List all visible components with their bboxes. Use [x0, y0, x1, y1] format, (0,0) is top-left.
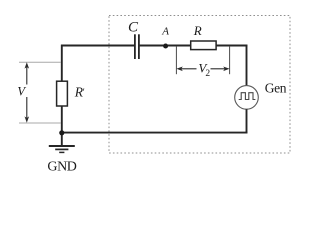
resistor R body: [191, 41, 216, 50]
node A junction dot: [163, 44, 168, 49]
wire: top horizontal (left segment to capacitor): [61, 45, 134, 47]
V arrowhead up: [25, 62, 30, 68]
wire: bottom horizontal: [62, 132, 248, 134]
V2 measurement right tick: [229, 46, 231, 74]
capacitor C left plate: [134, 34, 136, 59]
V arrow shaft upper: [26, 67, 28, 85]
V arrow shaft lower: [26, 97, 28, 119]
capacitor C right plate: [138, 34, 140, 59]
wire: left vertical lower segment: [61, 106, 63, 146]
ground bar 3 (narrowest): [59, 151, 64, 153]
wire: top horizontal (capacitor to right corner): [140, 45, 248, 47]
generator Gen circle: [235, 86, 259, 110]
svg-text:R′: R′: [74, 84, 85, 99]
V arrowhead down: [25, 116, 30, 122]
V2 arrow shaft right: [211, 68, 227, 70]
V measurement top tick: [19, 61, 61, 63]
V measurement bottom tick: [19, 122, 61, 124]
svg-text:Gen: Gen: [265, 80, 287, 95]
wire: left vertical upper segment: [61, 45, 63, 82]
svg-text:A: A: [161, 26, 169, 38]
V2 arrow shaft left: [181, 68, 197, 70]
junction dot at ground node: [59, 130, 64, 135]
svg-text:GND: GND: [47, 160, 76, 175]
svg-text:2: 2: [205, 69, 210, 79]
V2 measurement left tick: [175, 46, 177, 74]
V2 arrowhead right: [223, 67, 229, 72]
V2 arrowhead left: [176, 67, 182, 72]
ground bar 1 (widest): [49, 145, 75, 147]
resistor R' body: [57, 81, 68, 106]
square-wave symbol inside generator: [239, 93, 256, 100]
svg-text:R: R: [193, 23, 202, 38]
ground bar 2: [55, 148, 68, 150]
wire: right vertical (corner to generator top): [246, 45, 248, 86]
dashed boundary box of generator network: [109, 16, 290, 154]
svg-text:V: V: [17, 85, 26, 99]
wire: generator bottom stub: [246, 109, 248, 133]
svg-text:C: C: [128, 20, 139, 36]
